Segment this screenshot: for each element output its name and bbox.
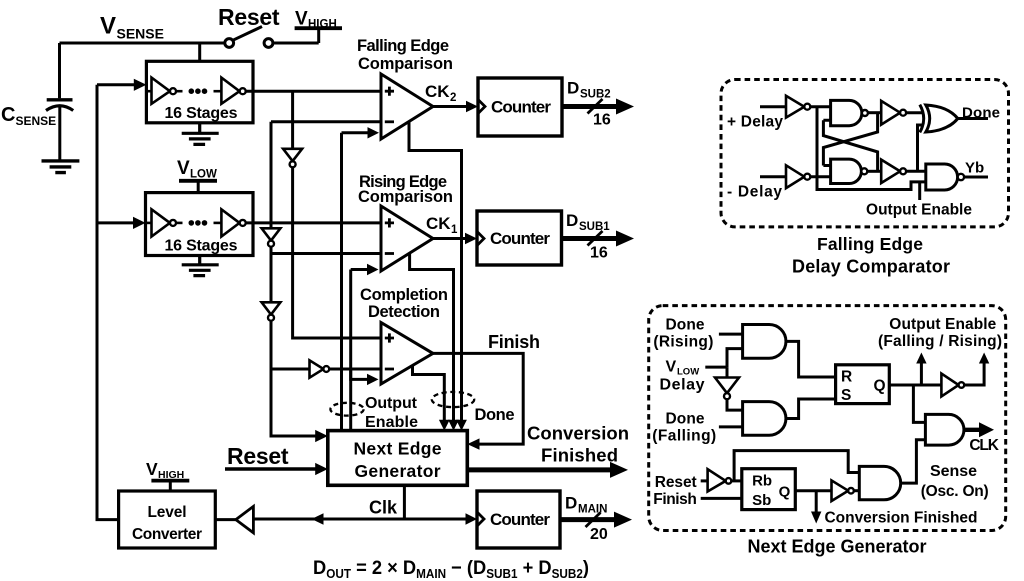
svg-text:Counter: Counter xyxy=(490,229,550,248)
wire inv1 out to NAND1 xyxy=(810,105,830,108)
wire cross couple a xyxy=(823,120,877,171)
inverter U2d xyxy=(941,374,958,397)
wire Q to and3 xyxy=(913,385,925,422)
svg-text:Conversion: Conversion xyxy=(527,423,629,444)
xor gate done xyxy=(920,105,924,133)
svg-text:CLK: CLK xyxy=(969,437,999,454)
wire done out xyxy=(958,117,988,120)
svg-text:Finished: Finished xyxy=(541,445,618,466)
svg-text:Comparison: Comparison xyxy=(358,188,453,206)
wire top feedback to and4 xyxy=(734,451,859,481)
wire -delay in xyxy=(760,175,786,178)
nand U1e xyxy=(831,159,862,183)
wire inv out to and2 xyxy=(727,399,743,410)
wire finish in xyxy=(701,497,742,500)
svg-text:Reset: Reset xyxy=(218,4,280,30)
block RbSb latch xyxy=(742,469,796,510)
wire vlow delay xyxy=(705,349,742,368)
counter 2 xyxy=(477,211,562,265)
and gate U2h sense xyxy=(859,466,900,499)
svg-text:V: V xyxy=(177,158,190,179)
svg-text:20: 20 xyxy=(590,526,608,543)
wire +delay in xyxy=(760,105,786,108)
svg-text:D: D xyxy=(567,79,579,98)
wire feedback bus from level converter xyxy=(97,85,119,520)
bus DSUB1 xyxy=(562,236,620,241)
op-amp completion detection xyxy=(381,323,433,385)
wire done rising in xyxy=(719,333,743,336)
inverter U2g xyxy=(832,480,849,501)
svg-text:MAIN: MAIN xyxy=(578,504,607,516)
svg-text:Rb: Rb xyxy=(752,473,772,490)
svg-text:Output Enable: Output Enable xyxy=(866,202,972,219)
svg-text:Counter: Counter xyxy=(490,510,550,529)
wire rising OE arrow xyxy=(351,268,368,271)
op-amp falling edge comparator xyxy=(381,74,433,139)
wire bus B x271 upper xyxy=(270,122,273,229)
wire CK1 to counter2 xyxy=(433,237,466,240)
wire into stage2 xyxy=(97,221,134,224)
svg-text:SENSE: SENSE xyxy=(117,26,164,42)
op-amp rising edge comparator xyxy=(381,206,433,271)
wire inv3 input xyxy=(271,368,310,371)
svg-text:Sense: Sense xyxy=(930,463,977,480)
wire inv to and4 xyxy=(854,489,860,492)
wire Q out xyxy=(889,384,941,387)
counter 1 xyxy=(478,78,562,136)
wire inv3 out to NAND2 xyxy=(810,175,830,178)
svg-text:Q: Q xyxy=(874,378,886,395)
inverter level converter (left pointing) xyxy=(236,506,254,532)
svg-text:Next Edge: Next Edge xyxy=(354,439,442,459)
svg-text:16 Stages: 16 Stages xyxy=(165,238,238,255)
svg-text:Done: Done xyxy=(962,105,1000,122)
inverter U1f xyxy=(881,160,900,183)
wire inv4 out to NAND3 xyxy=(906,170,926,173)
svg-text:Reset: Reset xyxy=(227,443,289,469)
wire xor lower input xyxy=(918,125,924,171)
svg-text:(Rising): (Rising) xyxy=(653,333,713,350)
and gate U2e clk xyxy=(925,414,964,445)
ground (stage1) xyxy=(182,123,219,145)
wire bus A x292.6 with inverter to completion plus xyxy=(291,91,294,149)
inverter U1d xyxy=(786,165,804,188)
wire finish xyxy=(433,353,523,444)
svg-text:D: D xyxy=(565,494,577,513)
wire rising minus xyxy=(271,252,381,255)
wire inv to Rb xyxy=(731,479,742,482)
inverter bus B 2 xyxy=(262,302,281,314)
wire done falling in xyxy=(719,425,743,428)
delay line block 1 (16 Stages) xyxy=(146,61,253,123)
svg-text:- Delay: - Delay xyxy=(727,184,782,201)
svg-text:LOW: LOW xyxy=(190,169,217,181)
svg-text:+ Delay: + Delay xyxy=(727,114,783,131)
inverter bus B 1 xyxy=(262,228,281,240)
svg-text:2: 2 xyxy=(450,92,456,104)
bus DMAIN xyxy=(560,517,617,522)
wire cross couple b xyxy=(823,113,877,166)
inverter before completion minus xyxy=(310,360,324,377)
wire VSENSE xyxy=(60,42,226,45)
svg-text:Delay: Delay xyxy=(660,377,705,394)
wire reset into NEG xyxy=(225,467,316,470)
wire clk horizontal xyxy=(253,518,466,521)
wire sense up to and3 xyxy=(901,440,926,483)
svg-text:Finish: Finish xyxy=(488,332,540,352)
bus DSUB2 xyxy=(562,104,619,109)
capacitor CSENSE xyxy=(58,43,61,98)
wire into stage1 xyxy=(97,83,135,86)
wire clk vertical xyxy=(403,485,406,519)
wire OE bus x341.5 xyxy=(340,133,343,431)
svg-text:Next Edge Generator: Next Edge Generator xyxy=(748,537,927,557)
wire clk out arrow xyxy=(964,428,981,432)
svg-text:R: R xyxy=(841,369,852,386)
inverter U1a xyxy=(786,96,804,118)
wire OE bus x350.7 xyxy=(349,270,352,431)
and gate U2a xyxy=(743,325,786,359)
wire stub to stage1 xyxy=(198,43,201,61)
svg-text:V: V xyxy=(100,13,116,40)
wire switch to VHIGH xyxy=(273,28,319,43)
wire OE arrow 2 xyxy=(964,362,984,385)
svg-text:HIGH: HIGH xyxy=(308,19,337,31)
inverter U2b (down) xyxy=(726,367,729,377)
svg-text:Enable: Enable xyxy=(365,414,418,431)
svg-text:(Osc. On): (Osc. On) xyxy=(921,483,989,500)
svg-text:V: V xyxy=(146,459,158,479)
svg-text:Q: Q xyxy=(779,484,791,501)
oval done xyxy=(432,392,474,407)
svg-text:Converter: Converter xyxy=(132,526,202,543)
wire completion minus xyxy=(329,368,381,371)
svg-text:V: V xyxy=(666,359,677,376)
wire CK1 feedback down xyxy=(410,253,454,425)
wire yb out xyxy=(964,176,988,179)
svg-text:Generator: Generator xyxy=(355,461,441,481)
svg-text:V: V xyxy=(295,9,308,30)
inverter U1c xyxy=(881,101,900,125)
oval output enable xyxy=(330,403,363,416)
block RS latch xyxy=(836,365,890,404)
svg-text:C: C xyxy=(1,104,15,126)
block level converter xyxy=(119,491,216,548)
wire CK2 to counter1 xyxy=(433,105,467,108)
block next edge generator xyxy=(328,431,468,486)
wire stage1 out to falling plus xyxy=(246,90,381,93)
svg-text:16: 16 xyxy=(593,112,611,129)
svg-text:(Falling): (Falling) xyxy=(652,427,716,444)
svg-text:SUB1: SUB1 xyxy=(579,221,610,233)
svg-text:SUB2: SUB2 xyxy=(580,89,611,101)
dashed box next edge generator xyxy=(649,306,1006,531)
svg-text:Done: Done xyxy=(666,410,705,427)
wire OE stub xyxy=(918,182,921,200)
svg-text:Done: Done xyxy=(666,316,705,333)
wire nand2 out xyxy=(867,170,881,173)
power VHIGH (top) xyxy=(295,26,342,30)
nand U1b xyxy=(831,100,862,125)
svg-text:Falling Edge: Falling Edge xyxy=(817,234,923,254)
wire nand1 out xyxy=(868,111,881,114)
wire falling minus xyxy=(271,120,381,123)
wire conversion finished down arrow xyxy=(815,491,818,513)
svg-text:Delay Comparator: Delay Comparator xyxy=(792,257,950,277)
svg-text:16: 16 xyxy=(590,245,608,262)
svg-text:Detection: Detection xyxy=(368,303,440,321)
svg-text:16 Stages: 16 Stages xyxy=(165,105,238,122)
switch S1 xyxy=(225,27,273,48)
wire reset in xyxy=(701,479,708,482)
svg-text:Sb: Sb xyxy=(752,492,771,509)
svg-text:(Falling / Rising): (Falling / Rising) xyxy=(878,333,1002,350)
svg-text:Output Enable: Output Enable xyxy=(889,316,996,333)
svg-text:Level: Level xyxy=(148,504,187,521)
svg-text:Done: Done xyxy=(475,406,515,424)
svg-text:Yb: Yb xyxy=(965,160,984,177)
nand U1g Yb xyxy=(926,164,958,190)
inverter U2f xyxy=(708,469,726,491)
ground (CSENSE) xyxy=(42,161,80,173)
wire conversion finished out xyxy=(467,467,611,472)
svg-text:CK: CK xyxy=(426,214,451,233)
wire stage2 out to rising plus xyxy=(246,221,381,224)
svg-text:Output: Output xyxy=(365,395,418,412)
and gate U2c xyxy=(743,402,786,436)
svg-text:Reset: Reset xyxy=(655,474,697,491)
wire CK2 feedback down xyxy=(409,122,462,426)
svg-text:Completion: Completion xyxy=(360,286,448,304)
svg-text:1: 1 xyxy=(451,224,458,236)
wire OE arrow 1 xyxy=(920,362,923,385)
ground (stage2) xyxy=(182,256,219,276)
svg-text:DOUT = 2 × DMAIN − (DSUB1 + DS: DOUT = 2 × DMAIN − (DSUB1 + DSUB2) xyxy=(313,557,589,581)
dashed box falling edge delay comparator xyxy=(721,80,1009,227)
svg-text:S: S xyxy=(841,387,851,404)
svg-text:D: D xyxy=(566,211,578,230)
wire falling OE arrow xyxy=(342,131,369,134)
svg-text:Clk: Clk xyxy=(369,498,398,518)
wire and2 to S xyxy=(786,399,836,419)
wire and1 to R xyxy=(786,341,836,377)
svg-text:Counter: Counter xyxy=(491,98,551,117)
wire long left vertical xyxy=(817,107,926,190)
wire bus B middle xyxy=(270,247,273,303)
wire completion feedback down xyxy=(413,366,445,426)
wire inv2 out to xor xyxy=(906,111,924,114)
svg-text:Conversion Finished: Conversion Finished xyxy=(825,510,978,527)
wire completion OE arrow xyxy=(351,369,368,379)
wire Qb out xyxy=(795,489,831,492)
delay line block 2 (16 Stages) xyxy=(146,193,254,256)
svg-text:SENSE: SENSE xyxy=(16,114,57,128)
wire bus B lower to NEG xyxy=(271,321,316,436)
svg-text:Comparison: Comparison xyxy=(358,55,453,73)
svg-text:Falling Edge: Falling Edge xyxy=(357,37,449,55)
svg-text:CK: CK xyxy=(425,82,450,101)
svg-text:Finish: Finish xyxy=(653,491,697,508)
counter 3 xyxy=(477,491,560,548)
